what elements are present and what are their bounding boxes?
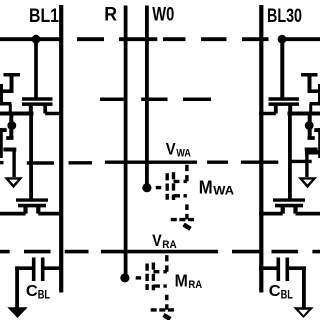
source rail down	[165, 295, 168, 310]
source rail down	[185, 204, 188, 219]
transistor MWA dashed	[156, 163, 197, 229]
wire band D right edge	[305, 150, 320, 154]
wire vertical from right dot	[280, 39, 284, 99]
wire row y39 dash d	[201, 37, 227, 41]
wire row y39 dash b crossing R W0	[119, 37, 157, 41]
net VRA row dash a	[0, 250, 10, 254]
svg-text:R: R	[104, 5, 117, 26]
transistor T1 channel bar	[22, 102, 53, 106]
ground symbol upper	[4, 177, 23, 188]
channel bar	[172, 172, 175, 200]
net VRA row solid crossing R	[101, 250, 218, 254]
svg-text:C: C	[26, 283, 38, 300]
wire storage to T2 gate	[29, 114, 33, 200]
net VWA row dash right b crossing BL30	[241, 160, 278, 163]
wire row y39 right solid	[280, 37, 320, 41]
wire CBL elbow down	[15, 266, 19, 307]
svg-text:RA: RA	[162, 239, 176, 251]
node dot storage	[7, 121, 16, 130]
wire T2 left	[0, 212, 26, 216]
net VRA row dash d to BL30	[232, 250, 260, 254]
net VWA row solid crossing R W0	[105, 160, 197, 163]
wire T2 to BL	[38, 212, 62, 216]
gate bar	[165, 173, 168, 200]
stem3 through node	[9, 113, 13, 138]
svg-text:WA: WA	[176, 148, 191, 160]
edge bar lower	[0, 128, 3, 158]
net VWA row dash edge	[0, 161, 4, 164]
svg-text:BL: BL	[281, 289, 293, 301]
net VWA row dash right a	[207, 160, 228, 163]
write word line W0	[145, 6, 149, 185]
node dot W0	[142, 183, 151, 192]
edge bar upper	[0, 84, 3, 106]
transistor T1 right leg	[43, 104, 47, 114]
transistor T2 right leg	[36, 206, 40, 214]
ground notch right lower	[299, 310, 309, 315]
drain rail up	[165, 253, 168, 271]
wire CBL left	[15, 266, 32, 270]
net VRA row dash f	[312, 250, 320, 254]
transistor MRA dashed	[136, 253, 177, 319]
svg-text:V: V	[166, 140, 176, 158]
svg-text:W0: W0	[152, 5, 174, 26]
wire from left dot to T1 gate	[34, 39, 38, 99]
source lead	[174, 194, 187, 197]
svg-text:V: V	[152, 232, 161, 250]
svg-text:WA: WA	[213, 185, 234, 197]
wire row y39 dash c	[163, 37, 186, 41]
capacitor bottom bar	[0, 89, 14, 93]
svg-text:BL1: BL1	[29, 5, 59, 27]
net VWA row dash cell	[27, 161, 54, 164]
arrow tip	[184, 225, 191, 229]
node dot R	[120, 273, 129, 282]
net VWA row right cell bar	[290, 160, 311, 163]
bit line BL30	[259, 5, 263, 293]
gate bar	[145, 264, 148, 291]
capacitor top plate T	[4, 73, 21, 77]
arrow wings	[151, 308, 177, 311]
band D	[3, 148, 16, 152]
svg-text:RA: RA	[188, 279, 202, 291]
transistor T2 gate bar	[16, 198, 48, 201]
node dot on BL1 branch	[32, 35, 41, 44]
wire row y39 left solid to BL1	[0, 37, 63, 41]
wire to ground	[12, 151, 15, 177]
read line R	[124, 6, 128, 275]
stem2	[9, 104, 12, 114]
wire row y39 dash a	[77, 37, 104, 41]
node dot right branch	[278, 35, 287, 44]
gate wire dash	[136, 276, 141, 279]
transistor T2 left leg	[23, 206, 27, 214]
net VRA row dash b	[24, 250, 51, 254]
ground symbol lower	[7, 307, 27, 318]
drain lead	[174, 180, 187, 183]
bar3	[0, 102, 11, 106]
arrow wings	[171, 218, 197, 221]
net VRA row dash e	[272, 250, 299, 254]
wire T1 to BL	[45, 112, 62, 116]
transistor T1 gate bar	[22, 97, 53, 100]
storage bus bar	[0, 112, 34, 116]
channel bar	[152, 263, 155, 291]
net VRA row dash c	[65, 250, 89, 254]
band B	[6, 136, 13, 140]
wire row y99 dash b crossing W0	[141, 97, 167, 101]
svg-text:M: M	[199, 176, 213, 197]
capacitor CBL right plate	[41, 258, 45, 282]
capacitor CBL left plate	[32, 258, 36, 282]
transistor T1 left leg	[29, 104, 33, 114]
band A	[0, 128, 7, 132]
capacitor stem	[10, 75, 14, 91]
left memory cell	[0, 75, 62, 318]
wire row y39 dash e crossing BL30	[242, 37, 269, 41]
source lead	[153, 284, 166, 287]
svg-text:C: C	[269, 283, 281, 300]
wire CBL right to BL	[45, 266, 63, 270]
svg-text:BL30: BL30	[267, 5, 302, 27]
net VWA row dash crossing	[69, 161, 93, 164]
svg-text:BL: BL	[38, 289, 50, 301]
gate wire dash	[156, 186, 161, 189]
arrow tip	[164, 315, 171, 319]
drain rail up	[185, 163, 188, 181]
bit line BL1	[59, 5, 63, 293]
transistor T2 channel bar	[18, 204, 46, 208]
wire row y99 dash a to R	[100, 97, 124, 101]
right memory cell mirrored	[259, 75, 320, 318]
svg-text:M: M	[175, 270, 188, 290]
drain lead	[153, 270, 166, 273]
wire row y99 dash c	[183, 97, 211, 101]
